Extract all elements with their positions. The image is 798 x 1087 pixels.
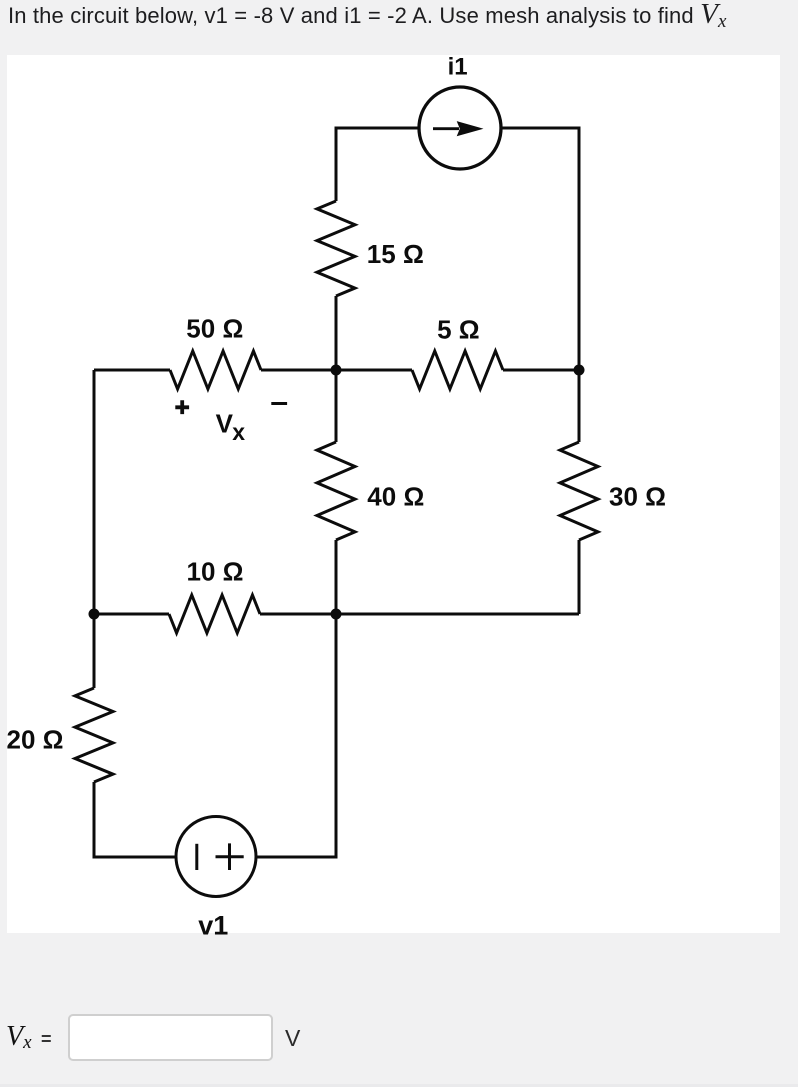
svg-text:20 Ω: 20 Ω: [7, 725, 64, 755]
equals sign: [41, 1029, 52, 1050]
label 10 ohm: [187, 557, 244, 587]
label plus of Vx: [175, 400, 189, 414]
unit V: [285, 1025, 300, 1052]
wire top-left from i1 to left corner: [336, 128, 419, 201]
wire left outer node D to 20ohm: [93, 614, 96, 688]
voltage source v1 circle: [176, 817, 256, 897]
answer label Vx: [6, 1021, 32, 1053]
wire right vertical node B to 30ohm: [578, 370, 581, 442]
node A junction dot: [331, 365, 342, 376]
svg-text:V: V: [216, 409, 234, 439]
wire v1 to mid vertical bottom: [257, 614, 336, 857]
svg-text:x: x: [232, 419, 245, 445]
wire 30ohm to row614: [578, 540, 581, 614]
resistor 20ohm zigzag: [75, 688, 113, 782]
svg-text:5 Ω: 5 Ω: [437, 315, 480, 345]
label i1: [448, 54, 468, 81]
wire 40ohm to node C: [335, 540, 338, 614]
wire 5ohm to node B: [503, 369, 579, 372]
wire 10ohm to node C: [260, 613, 336, 616]
label Vx: [216, 409, 246, 446]
current source i1 arrow: [433, 121, 484, 136]
question text: [8, 3, 727, 29]
label v1: [198, 911, 228, 941]
input box: [68, 1014, 273, 1061]
label 5 ohm: [437, 315, 480, 345]
svg-text:10 Ω: 10 Ω: [187, 557, 244, 587]
wire node A to 5ohm: [336, 369, 412, 372]
v1 plus sign: [216, 843, 244, 870]
wire row370 left outer to 50ohm: [94, 369, 170, 372]
node C junction dot: [331, 609, 342, 620]
resistor 5ohm zigzag: [412, 351, 503, 389]
label 15 ohm: [367, 239, 424, 269]
label minus of Vx: [271, 402, 287, 405]
node D junction dot: [89, 609, 100, 620]
label 40 ohm: [367, 481, 424, 511]
svg-text:40 Ω: 40 Ω: [367, 481, 424, 511]
svg-text:v1: v1: [198, 911, 228, 941]
wire 50ohm to node A: [261, 369, 336, 372]
resistor 15ohm zigzag: [317, 201, 355, 296]
wire top-right from i1 to right vertical: [501, 128, 579, 370]
label 50 ohm: [186, 313, 243, 343]
resistor 10ohm zigzag: [169, 595, 260, 633]
wire row614 node C to right vertical: [336, 613, 579, 616]
label 30 ohm: [609, 481, 666, 511]
svg-text:50 Ω: 50 Ω: [186, 313, 243, 343]
wire left outer vertical row370 to row614: [93, 370, 96, 614]
resistor 40ohm zigzag: [317, 442, 355, 540]
current source i1 circle: [419, 87, 501, 169]
svg-text:i1: i1: [448, 54, 468, 81]
wire 20ohm to bottom row: [94, 782, 177, 857]
resistor 50ohm zigzag: [170, 351, 261, 389]
circuit panel: [7, 55, 780, 933]
wire row614 node D to 10ohm: [94, 613, 169, 616]
resistor 30ohm zigzag: [560, 442, 598, 540]
label 20 ohm: [7, 725, 64, 755]
node B junction dot: [574, 365, 585, 376]
wire mid vertical node A to 40ohm: [335, 370, 338, 442]
bottom band: [0, 1084, 798, 1087]
svg-text:15 Ω: 15 Ω: [367, 239, 424, 269]
svg-text:30 Ω: 30 Ω: [609, 481, 666, 511]
wire left-mid vertical below 15ohm: [335, 296, 338, 370]
v1 minus bar: [195, 844, 198, 870]
